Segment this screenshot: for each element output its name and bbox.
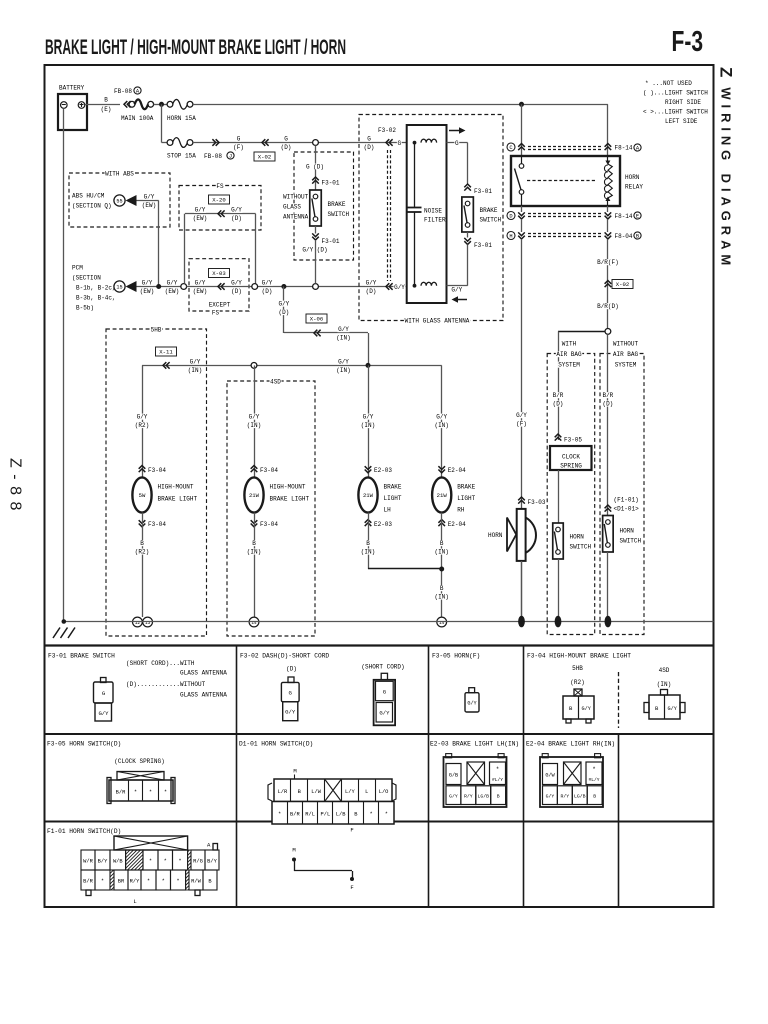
svg-text:(IN): (IN) — [434, 593, 448, 600]
svg-text:G/Y: G/Y — [394, 284, 405, 291]
svg-text:B/R: B/R — [553, 392, 564, 399]
connector drawing F3-01 — [101, 678, 107, 683]
dashed box WITHOUT AIR BAG SYSTEM — [600, 354, 644, 635]
svg-text:B: B — [440, 540, 444, 547]
svg-text:B/R: B/R — [602, 392, 613, 399]
svg-text:B/Y: B/Y — [98, 859, 108, 865]
FS loop wires — [185, 213, 256, 215]
connector drawing F3-05 horn switch — [117, 772, 164, 781]
svg-text:HIGH-MOUNT: HIGH-MOUNT — [158, 484, 194, 491]
svg-text:* ...NOT USED: * ...NOT USED — [645, 80, 692, 87]
svg-text:G/Y: G/Y — [668, 706, 678, 712]
svg-text:BRAKE: BRAKE — [384, 484, 402, 491]
connector X-20 in FS path — [209, 195, 230, 204]
brake switch 1 — [310, 190, 322, 226]
svg-text:X-20: X-20 — [212, 197, 226, 204]
svg-text:R/W: R/W — [191, 879, 201, 885]
ground circle 14 bulb2 — [249, 617, 259, 627]
connector to horn switch 2 — [605, 505, 612, 512]
brake light RH 21W (bulb4) — [441, 365, 443, 477]
svg-text:(IN): (IN) — [188, 367, 202, 374]
svg-text:*: * — [278, 812, 281, 818]
svg-text:(SECTION: (SECTION — [72, 275, 101, 282]
node bulb2 tap — [251, 363, 257, 369]
svg-text:B-5b): B-5b) — [76, 305, 94, 312]
svg-text:(CLOCK SPRING): (CLOCK SPRING) — [114, 758, 164, 765]
svg-text:*: * — [149, 790, 152, 796]
wire PCM output G/Y — [137, 286, 184, 288]
wire relay feed left drop — [521, 104, 523, 156]
wire joining bulb3 to bulb4 ground lead — [368, 568, 442, 570]
svg-text:F3-01: F3-01 — [322, 238, 340, 245]
svg-text:PCM: PCM — [72, 265, 83, 272]
svg-text:F3-04: F3-04 — [260, 467, 278, 474]
svg-text:(IN): (IN) — [336, 367, 350, 374]
svg-text:B/R(D): B/R(D) — [597, 303, 619, 310]
wire horn feed to relay drop — [193, 104, 608, 106]
svg-text:BRAKE LIGHT / HIGH-MOUNT BRAKE: BRAKE LIGHT / HIGH-MOUNT BRAKE LIGHT / H… — [45, 36, 346, 59]
wire clock spring to horn switch 1 — [558, 470, 560, 523]
svg-text:X-11: X-11 — [159, 349, 173, 356]
svg-text:G: G — [398, 140, 402, 147]
wire G/Y out of filter to node — [365, 280, 377, 286]
svg-text:G/Y: G/Y — [285, 709, 296, 716]
svg-text:L/B: L/B — [336, 812, 346, 818]
svg-text:G/Y: G/Y — [142, 280, 153, 287]
svg-text:R/L: R/L — [305, 812, 315, 818]
svg-text:(EW): (EW) — [140, 288, 154, 295]
svg-text:X-02: X-02 — [258, 154, 271, 161]
svg-text:G/Y: G/Y — [190, 358, 201, 365]
svg-text:SYSTEM: SYSTEM — [615, 362, 637, 369]
svg-text:E2-03 BRAKE LIGHT LH(IN): E2-03 BRAKE LIGHT LH(IN) — [430, 741, 519, 748]
svg-text:G/Y: G/Y — [467, 701, 477, 707]
wire label G (F) — [236, 136, 241, 142]
connector X-03 in EXCEPT FS path — [209, 269, 230, 278]
svg-text:SWITCH: SWITCH — [570, 544, 592, 551]
connector X-11 — [156, 347, 177, 356]
svg-text:X-06: X-06 — [310, 316, 323, 323]
junction ABS joins PCM wire — [156, 284, 161, 289]
svg-text:F3-01: F3-01 — [322, 180, 340, 187]
svg-text:ZWIRING DIAGRAM: ZWIRING DIAGRAM — [717, 67, 736, 270]
svg-text:HORN: HORN — [570, 534, 585, 541]
svg-text:(D): (D) — [231, 215, 242, 222]
connector F3-01 top of brake switch 2 — [464, 184, 471, 191]
svg-text:FB-08: FB-08 — [204, 153, 222, 160]
svg-text:L/R: L/R — [278, 789, 288, 795]
svg-text:(D): (D) — [286, 666, 297, 673]
svg-text:21W: 21W — [249, 492, 260, 499]
svg-text:(F): (F) — [516, 420, 527, 427]
svg-text:G/Y: G/Y — [98, 710, 109, 717]
svg-text:G/Y: G/Y — [262, 280, 273, 287]
wire down to stop fuse — [161, 104, 163, 142]
svg-text:G (D): G (D) — [306, 164, 324, 171]
svg-text:( )...LIGHT SWITCH: ( )...LIGHT SWITCH — [643, 90, 708, 97]
connector F3-01 bottom — [312, 233, 319, 240]
svg-text:*: * — [149, 859, 152, 865]
svg-text:BRAKE LIGHT: BRAKE LIGHT — [158, 496, 198, 503]
svg-text:L/Y: L/Y — [345, 789, 355, 795]
svg-text:W/R: W/R — [83, 859, 93, 865]
svg-text:#L/Y: #L/Y — [588, 777, 599, 783]
wire X-06 branch down — [283, 287, 285, 334]
wire horn switch 1 to ground — [558, 559, 560, 617]
connector F3-01 bottom of brake switch 2 — [464, 238, 471, 245]
svg-text:NOISE: NOISE — [424, 208, 442, 215]
wire filter to brake switch 2 — [447, 142, 468, 144]
node brake switch 1 bottom tap — [313, 284, 319, 290]
svg-text:(F1-01): (F1-01) — [614, 497, 639, 504]
noise filter bottom coil — [413, 284, 417, 288]
svg-text:(SHORT CORD): (SHORT CORD) — [361, 664, 404, 671]
svg-text:ABS HU/CM: ABS HU/CM — [72, 193, 105, 200]
svg-text:*: * — [592, 766, 596, 773]
svg-text:G: G — [284, 136, 288, 143]
connector drawing F3-02 short cord — [381, 673, 387, 680]
svg-text:B/R: B/R — [116, 790, 126, 796]
svg-text:G/Y: G/Y — [449, 794, 458, 800]
svg-text:(SHORT CORD)...WITH: (SHORT CORD)...WITH — [126, 660, 195, 667]
svg-text:LEFT SIDE: LEFT SIDE — [665, 118, 698, 125]
node FS loop rejoin — [252, 284, 258, 290]
junction battery ground — [62, 619, 67, 624]
svg-text:G/Y: G/Y — [366, 280, 377, 287]
svg-text:*: * — [385, 812, 388, 818]
svg-text:(E): (E) — [101, 106, 112, 113]
wire X-06 branch to wire3 — [368, 333, 370, 365]
svg-text:5HB: 5HB — [151, 327, 162, 334]
wire without-airbag B/R down — [607, 334, 609, 515]
table grid — [45, 644, 714, 646]
svg-text:G/Y: G/Y — [195, 207, 206, 214]
svg-text:X-03: X-03 — [212, 270, 225, 277]
svg-text:E: E — [636, 214, 639, 220]
svg-text:GLASS ANTENNA: GLASS ANTENNA — [180, 692, 227, 699]
connector F3-05 clock spring — [555, 434, 562, 441]
brake switch 1 wire from node — [315, 145, 317, 190]
high-mount brake light 21W (bulb2) — [254, 365, 256, 477]
svg-text:(D): (D) — [602, 400, 613, 407]
horn relay switch — [521, 156, 523, 164]
svg-text:(D): (D) — [366, 288, 377, 295]
svg-text:B: B — [252, 540, 256, 547]
svg-text:B: B — [366, 540, 370, 547]
connector drawing F3-04 5HB — [574, 689, 582, 696]
svg-text:F3-04: F3-04 — [148, 467, 166, 474]
connector FB-08 A — [124, 101, 131, 108]
svg-text:B/R: B/R — [83, 879, 93, 885]
svg-text:HORN 15A: HORN 15A — [167, 115, 196, 122]
wire with-airbag B/R down — [552, 392, 564, 398]
svg-text:BRAKE: BRAKE — [457, 484, 475, 491]
svg-text:HORN: HORN — [620, 528, 635, 535]
svg-text:5HB: 5HB — [572, 665, 583, 672]
horn switch 2 — [603, 516, 614, 553]
dashed box EXCEPT FS — [189, 259, 249, 311]
dashed divider 5HB/4SD — [618, 672, 620, 728]
svg-text:E2-04 BRAKE LIGHT RH(IN): E2-04 BRAKE LIGHT RH(IN) — [526, 741, 615, 748]
svg-text:*: * — [178, 859, 181, 865]
svg-text:<D1-01>: <D1-01> — [614, 506, 640, 513]
svg-text:L: L — [133, 898, 136, 905]
svg-text:(IN): (IN) — [361, 422, 375, 429]
noise filter capacitor — [414, 143, 416, 208]
wire horn feed G/Y (F) — [516, 412, 528, 418]
svg-text:SYSTEM: SYSTEM — [558, 362, 580, 369]
svg-text:LIGHT: LIGHT — [457, 495, 475, 502]
svg-text:B-3b, B-4c,: B-3b, B-4c, — [76, 295, 116, 302]
svg-text:G/Y: G/Y — [249, 414, 260, 421]
svg-text:R/Y: R/Y — [561, 794, 570, 800]
svg-text:BATTERY: BATTERY — [59, 85, 85, 92]
svg-text:WITHOUT: WITHOUT — [613, 341, 639, 348]
svg-text:B/Y: B/Y — [207, 859, 217, 865]
svg-text:F3-05 HORN(F): F3-05 HORN(F) — [432, 653, 480, 660]
svg-text:G/Y: G/Y — [338, 358, 349, 365]
svg-text:*: * — [162, 879, 165, 885]
wire horn to ground — [521, 561, 523, 617]
svg-text:BRAKE: BRAKE — [480, 207, 498, 214]
connector drawing F3-05 horn — [469, 688, 475, 693]
svg-text:SWITCH: SWITCH — [620, 538, 642, 545]
svg-text:*: * — [496, 766, 500, 773]
svg-text:M: M — [292, 847, 295, 854]
horn relay box — [511, 156, 620, 206]
svg-text:G/Y: G/Y — [195, 280, 206, 287]
svg-text:X-02: X-02 — [616, 281, 629, 288]
svg-text:GLASS ANTENNA: GLASS ANTENNA — [180, 670, 227, 677]
junction at horn relay column — [519, 102, 524, 107]
svg-text:D: D — [509, 214, 512, 220]
svg-text:STOP 15A: STOP 15A — [167, 153, 196, 160]
svg-text:SWITCH: SWITCH — [328, 211, 350, 218]
connector X-02 — [262, 139, 269, 146]
svg-text:AIR BAG: AIR BAG — [556, 351, 582, 358]
svg-text:HORN: HORN — [488, 532, 503, 539]
svg-text:R/Y: R/Y — [464, 794, 473, 800]
svg-text:B: B — [104, 97, 108, 104]
svg-text:M: M — [293, 768, 296, 775]
svg-text:WITH ABS: WITH ABS — [105, 171, 134, 178]
svg-text:FS: FS — [216, 183, 224, 190]
svg-text:*: * — [101, 879, 104, 885]
svg-text:Z-88: Z-88 — [7, 458, 24, 517]
svg-text:BRAKE: BRAKE — [328, 201, 346, 208]
wire to with-airbag branch — [558, 331, 605, 333]
junction horn switch 2 ground — [605, 616, 612, 628]
wire relay feed right drop — [607, 104, 609, 156]
svg-text:21W: 21W — [363, 492, 374, 499]
svg-text:G: G — [237, 136, 241, 143]
svg-text:HORN: HORN — [625, 174, 640, 181]
dashed box FS — [179, 186, 261, 231]
svg-text:EXCEPT: EXCEPT — [209, 302, 231, 309]
svg-text:*: * — [147, 879, 150, 885]
wire stop fuse to brake switch node — [193, 142, 407, 144]
svg-text:#L/Y: #L/Y — [492, 777, 503, 783]
svg-text:(IN): (IN) — [247, 548, 261, 555]
wire 2 main G/Y run — [187, 286, 407, 288]
svg-text:(D)............WITHOUT: (D)............WITHOUT — [126, 681, 206, 688]
connector drawing F3-04 4SD — [661, 690, 668, 696]
svg-text:(IN): (IN) — [434, 548, 448, 555]
noise filter top coil — [413, 141, 417, 145]
svg-text:LG/B: LG/B — [477, 794, 489, 800]
wire G into noise filter — [367, 136, 372, 142]
svg-text:G/Y: G/Y — [582, 706, 592, 712]
svg-text:(EW): (EW) — [193, 288, 207, 295]
connector drawing F1-01 — [114, 836, 188, 850]
svg-text:D1-01 HORN SWITCH(D): D1-01 HORN SWITCH(D) — [239, 741, 313, 748]
svg-text:G/Y: G/Y — [546, 794, 555, 800]
svg-text:(F): (F) — [233, 144, 244, 151]
svg-text:B: B — [593, 794, 596, 800]
svg-text:RIGHT SIDE: RIGHT SIDE — [665, 99, 701, 106]
svg-text:E2-04: E2-04 — [448, 467, 466, 474]
svg-text:E2-03: E2-03 — [374, 521, 392, 528]
svg-text:G/Y: G/Y — [516, 412, 527, 419]
svg-text:B/R: B/R — [290, 812, 300, 818]
connector X-06 — [284, 332, 368, 334]
connector FB-08 J male — [212, 139, 219, 146]
svg-text:(EW): (EW) — [142, 202, 156, 209]
svg-text:(EW): (EW) — [165, 288, 179, 295]
wire battery positive to fuse — [85, 104, 120, 106]
svg-text:F-3: F-3 — [672, 26, 704, 58]
dashed box WITH ABS — [69, 173, 170, 227]
svg-text:F: F — [350, 884, 353, 891]
svg-text:P/L: P/L — [321, 812, 331, 818]
junction bulb3 / X-06 feed — [366, 363, 371, 368]
svg-text:F3-01 BRAKE SWITCH: F3-01 BRAKE SWITCH — [48, 653, 115, 660]
border frame — [45, 65, 714, 907]
svg-text:(SECTION Q): (SECTION Q) — [72, 203, 112, 210]
svg-text:(EW): (EW) — [193, 215, 207, 222]
svg-text:B: B — [497, 794, 500, 800]
svg-text:(D): (D) — [262, 288, 273, 295]
svg-text:WITHOUT: WITHOUT — [283, 194, 309, 201]
svg-text:G/Y: G/Y — [451, 287, 462, 294]
svg-text:G: G — [367, 136, 371, 143]
junction horn ground — [518, 616, 525, 628]
svg-text:G/Y: G/Y — [144, 194, 155, 201]
svg-text:4SD: 4SD — [659, 667, 670, 674]
connector F3-03 — [518, 497, 525, 504]
connector F3-01 top — [312, 177, 319, 184]
svg-text:J: J — [229, 154, 232, 160]
wire horn switch 2 to ground — [607, 552, 609, 617]
junction node — [159, 102, 164, 107]
svg-text:W/B: W/B — [113, 859, 123, 865]
fuse STOP 15A — [162, 142, 168, 144]
connector drawing E2-04 — [540, 757, 603, 807]
svg-text:F1-01 HORN SWITCH(D): F1-01 HORN SWITCH(D) — [47, 828, 121, 835]
svg-text:C: C — [509, 145, 512, 151]
svg-text:R/Y: R/Y — [130, 879, 140, 885]
node brake switch 1 tap — [313, 140, 319, 146]
connector drawing F3-02 D — [288, 677, 294, 683]
svg-text:5W: 5W — [139, 492, 146, 499]
svg-text:F3-05 HORN SWITCH(D): F3-05 HORN SWITCH(D) — [47, 741, 121, 748]
svg-text:B-1b, B-2c,: B-1b, B-2c, — [76, 285, 116, 292]
svg-text:F8-04: F8-04 — [615, 233, 633, 240]
brake switch 2 — [462, 197, 474, 232]
svg-text:B: B — [440, 585, 444, 592]
arrow right at filter top — [449, 130, 459, 132]
svg-text:B/R(F): B/R(F) — [597, 259, 619, 266]
dashed box WITHOUT GLASS ANTENNA — [294, 152, 354, 260]
svg-text:F3-01: F3-01 — [474, 242, 492, 249]
svg-text:G/Y: G/Y — [436, 414, 447, 421]
svg-text:(IN): (IN) — [657, 681, 671, 688]
svg-text:21W: 21W — [437, 492, 448, 499]
svg-text:BRAKE LIGHT: BRAKE LIGHT — [270, 496, 310, 503]
svg-text:G/Y: G/Y — [379, 710, 390, 717]
svg-text:WITH: WITH — [562, 341, 577, 348]
svg-text:*: * — [164, 859, 167, 865]
connector row H / F8-04 B — [507, 232, 515, 240]
junction to X-06 branch — [281, 284, 286, 289]
svg-text:E2-03: E2-03 — [374, 467, 392, 474]
horn switch 1 — [553, 523, 564, 559]
connector row D / F8-14 E — [507, 212, 515, 220]
wire brake switch 2 to filter bottom — [467, 232, 469, 238]
svg-text:55: 55 — [116, 199, 122, 205]
battery — [58, 94, 87, 130]
ground symbol — [53, 628, 75, 639]
svg-text:RELAY: RELAY — [625, 184, 643, 191]
svg-text:(D): (D) — [364, 144, 375, 151]
svg-text:LG/B: LG/B — [574, 794, 586, 800]
svg-text:G/Y: G/Y — [137, 414, 148, 421]
svg-text:F3-01: F3-01 — [474, 188, 492, 195]
horn relay coil — [607, 156, 609, 163]
svg-text:*: * — [164, 790, 167, 796]
svg-text:F3-04: F3-04 — [260, 521, 278, 528]
svg-text:(D): (D) — [553, 400, 564, 407]
svg-text:SPRING: SPRING — [560, 463, 582, 470]
svg-text:(R2): (R2) — [135, 548, 149, 555]
wire label G (D) — [284, 136, 289, 142]
svg-text:G/B: G/B — [449, 773, 458, 779]
wire 3 G/Y(IN) feed — [142, 365, 442, 367]
dashed box 5HB — [106, 329, 207, 636]
svg-text:*: * — [134, 790, 137, 796]
svg-text:G: G — [455, 140, 459, 147]
fuse MAIN 100A — [128, 104, 129, 106]
connector drawing E2-03 — [444, 757, 507, 807]
svg-text:F3-02 DASH(D)-SHORT CORD: F3-02 DASH(D)-SHORT CORD — [240, 653, 329, 660]
dashed box 4SD — [227, 381, 315, 636]
svg-text:G/Y: G/Y — [338, 326, 349, 333]
svg-text:F3-02: F3-02 — [378, 127, 396, 134]
svg-text:G/Y: G/Y — [231, 207, 242, 214]
svg-text:(D): (D) — [281, 144, 292, 151]
svg-text:H: H — [509, 234, 512, 240]
svg-text:(R2): (R2) — [570, 679, 584, 686]
arrow left at filter bottom — [452, 296, 459, 302]
svg-text:SWITCH: SWITCH — [480, 217, 502, 224]
svg-text:F8-14: F8-14 — [615, 213, 633, 220]
high-mount brake light 5W (bulb1) — [142, 365, 144, 477]
wire fuse to junction — [154, 104, 168, 106]
connector X-02 on B/R wire — [605, 281, 612, 288]
svg-text:B: B — [140, 540, 144, 547]
svg-text:G/Y: G/Y — [278, 301, 289, 308]
svg-text:4SD: 4SD — [270, 379, 281, 386]
